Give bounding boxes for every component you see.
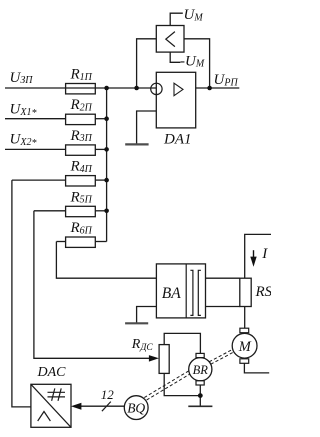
svg-text:BR: BR: [193, 363, 209, 377]
svg-text:RS: RS: [255, 284, 272, 300]
svg-text:M: M: [238, 339, 252, 355]
svg-text:R4П: R4П: [70, 159, 93, 175]
svg-text:UХ1*: UХ1*: [10, 102, 37, 120]
svg-text:BQ: BQ: [127, 400, 145, 415]
svg-text:R3П: R3П: [70, 128, 93, 144]
svg-text:R2П: R2П: [70, 97, 93, 113]
svg-text:RДС: RДС: [131, 337, 154, 353]
svg-text:12: 12: [101, 387, 115, 402]
svg-text:R5П: R5П: [70, 189, 93, 205]
svg-text:DA1: DA1: [163, 131, 192, 147]
svg-text:DAC: DAC: [37, 365, 67, 380]
svg-text:UРП: UРП: [214, 72, 239, 88]
svg-text:UЗП: UЗП: [10, 70, 34, 86]
svg-text:R1П: R1П: [70, 67, 93, 83]
svg-text:-UМ: -UМ: [180, 53, 205, 69]
svg-text:UМ: UМ: [184, 7, 204, 23]
svg-text:I: I: [261, 246, 268, 262]
svg-text:UХ2*: UХ2*: [10, 132, 37, 150]
svg-text:BA: BA: [162, 285, 181, 302]
svg-text:R6П: R6П: [70, 220, 93, 236]
